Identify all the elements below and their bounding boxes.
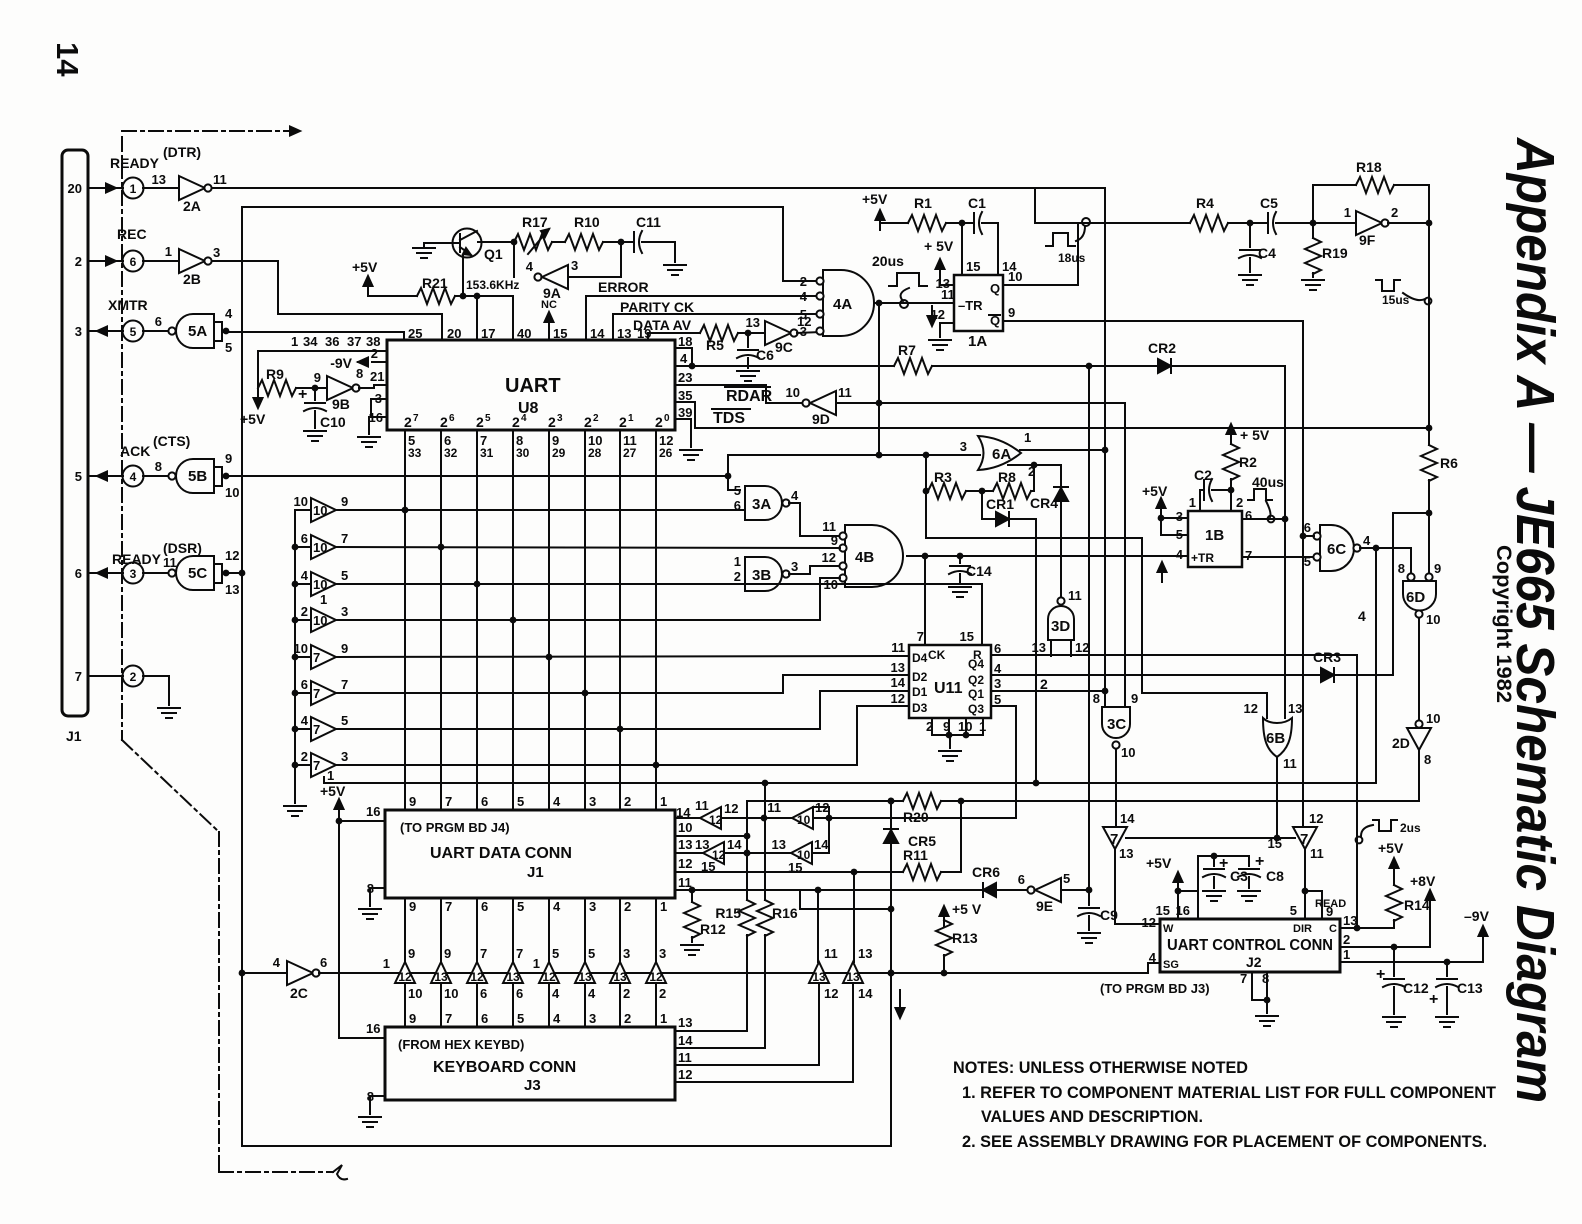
label TO PRGM BD J3 — [1100, 981, 1210, 996]
svg-text:+: + — [1429, 991, 1438, 1008]
svg-text:2: 2 — [440, 414, 448, 430]
wire data column 3 — [476, 430, 478, 810]
receiver 10b — [772, 837, 830, 875]
svg-text:2: 2 — [301, 749, 308, 764]
svg-text:16: 16 — [366, 1021, 380, 1036]
svg-text:4: 4 — [301, 568, 309, 583]
svg-text:(CTS): (CTS) — [153, 433, 190, 449]
wire 6B pin13 riser — [1282, 516, 1289, 718]
buffer 7a — [1103, 811, 1135, 861]
svg-text:+5V: +5V — [320, 783, 346, 799]
diode CR6 — [972, 864, 1000, 897]
wire R6 to 6D pin9 — [1428, 513, 1430, 574]
svg-text:R2: R2 — [1239, 454, 1257, 470]
gate 3A — [734, 483, 799, 520]
label REC — [117, 226, 147, 242]
svg-text:3: 3 — [130, 567, 137, 581]
svg-text:7: 7 — [313, 722, 320, 737]
wire row4 to 4B pin10 — [336, 578, 840, 623]
svg-text:13: 13 — [846, 970, 860, 984]
svg-text:9: 9 — [409, 1011, 416, 1026]
svg-text:C4: C4 — [1258, 245, 1276, 261]
svg-text:14: 14 — [814, 837, 829, 852]
J1conn pin16 — [366, 804, 380, 819]
svg-text:1: 1 — [1189, 495, 1196, 510]
inverter 9F — [1313, 205, 1398, 248]
svg-text:9A: 9A — [543, 285, 561, 301]
J1conn pin11 row — [675, 875, 983, 893]
title Appendix A - JE665 Schematic Diagram — [1505, 136, 1565, 1103]
svg-text:5: 5 — [552, 946, 559, 961]
svg-text:7: 7 — [445, 1011, 452, 1026]
connector UART DATA CONN J1 — [385, 810, 675, 898]
svg-text:15: 15 — [966, 259, 980, 274]
svg-text:13: 13 — [812, 970, 826, 984]
svg-text:14: 14 — [676, 805, 691, 820]
receiver 12a — [695, 798, 738, 829]
wire data column 7 — [619, 430, 621, 810]
wire U11 Q2 row — [991, 675, 1321, 692]
ground UART pin39 — [680, 450, 702, 460]
svg-text:32: 32 — [444, 446, 458, 460]
buffer 7 row8 — [295, 749, 348, 777]
wire 4A out riser — [878, 303, 880, 455]
svg-text:11: 11 — [824, 946, 838, 961]
UART pin20 stub — [447, 326, 461, 341]
svg-text:C6: C6 — [756, 347, 774, 363]
svg-text:1: 1 — [130, 182, 137, 196]
svg-text:5: 5 — [485, 413, 491, 424]
svg-text:4: 4 — [521, 413, 527, 424]
label PARITY CK — [620, 299, 694, 315]
svg-text:3: 3 — [341, 749, 348, 764]
svg-text:10: 10 — [313, 613, 327, 628]
svg-text:NOTES: UNLESS OTHERWISE NOTED: NOTES: UNLESS OTHERWISE NOTED — [953, 1058, 1248, 1077]
buffer 10 row4 — [295, 604, 348, 632]
svg-text:3: 3 — [75, 324, 82, 339]
capacitor C13 — [1429, 962, 1483, 1027]
wire 6C out — [1360, 545, 1411, 573]
svg-text:35: 35 — [678, 388, 692, 403]
label ACK (CTS) — [120, 433, 190, 459]
svg-text:CK: CK — [928, 648, 946, 662]
svg-text:J1: J1 — [527, 864, 544, 881]
svg-text:R20: R20 — [903, 809, 929, 825]
UART pin35 — [675, 388, 695, 428]
wire PARITY to 4A pin5 — [613, 313, 820, 315]
svg-text:4: 4 — [994, 661, 1002, 676]
svg-text:ACK: ACK — [120, 443, 150, 459]
svg-text:+5V: +5V — [1142, 483, 1168, 499]
wire data column 4 — [512, 430, 514, 810]
svg-text:Q3: Q3 — [968, 702, 984, 716]
svg-text:2: 2 — [1236, 495, 1243, 510]
svg-text:CR1: CR1 — [986, 496, 1014, 512]
buffer pin1 labels — [320, 592, 334, 783]
svg-text:2: 2 — [75, 254, 82, 269]
power +5V R1 — [862, 191, 908, 230]
diode CR3 — [1313, 649, 1393, 682]
svg-text:2: 2 — [584, 414, 592, 430]
svg-text:C13: C13 — [1457, 980, 1483, 996]
gate 6B — [1244, 701, 1303, 771]
svg-text:5: 5 — [1290, 903, 1297, 918]
wire row14 right — [813, 815, 1016, 822]
inverter 2D — [1392, 711, 1440, 767]
diode CR1 — [982, 491, 1036, 526]
wire TDS long — [695, 425, 1432, 432]
svg-text:R13: R13 — [952, 930, 978, 946]
resistor R8 — [993, 469, 1031, 499]
J2 pin12 label — [1142, 915, 1156, 930]
wire R21 to pins 17 40 — [455, 293, 513, 300]
resistor R5 — [700, 325, 738, 353]
svg-text:7: 7 — [313, 686, 320, 701]
svg-text:8: 8 — [1398, 561, 1405, 576]
buffer 13b — [843, 946, 873, 1001]
wire 2B out to UART pin20 — [212, 261, 442, 340]
node 3 circle — [123, 563, 144, 584]
svg-text:C1: C1 — [968, 195, 986, 211]
svg-text:11: 11 — [213, 172, 227, 187]
wire R3 riser — [923, 455, 930, 538]
nand 5B — [143, 451, 239, 500]
svg-text:2: 2 — [624, 1011, 631, 1026]
svg-text:8: 8 — [367, 1089, 374, 1104]
svg-text:J3: J3 — [524, 1077, 541, 1094]
J1conn pin13 row — [675, 837, 709, 853]
wire R11 to R20 — [941, 801, 961, 872]
wire 6D out to 2D — [1418, 618, 1420, 721]
wire 5C out — [222, 570, 245, 577]
gate 6A — [978, 436, 1021, 470]
svg-text:6D: 6D — [1406, 589, 1425, 606]
svg-text:13: 13 — [891, 660, 905, 675]
svg-text:7: 7 — [445, 899, 452, 914]
inverter 2A — [143, 172, 227, 214]
1A Qbar pin9 — [1003, 305, 1303, 321]
diode CR2 — [1148, 340, 1176, 373]
svg-text:R11: R11 — [903, 847, 928, 863]
capacitor C2 — [1194, 467, 1234, 511]
svg-text:11: 11 — [767, 800, 781, 815]
resistor R13 — [936, 901, 982, 973]
svg-text:R1: R1 — [914, 195, 932, 211]
svg-text:D4: D4 — [912, 651, 928, 665]
svg-text:13: 13 — [746, 315, 760, 330]
svg-text:5: 5 — [225, 340, 232, 355]
wire x1357 vertical — [1356, 655, 1358, 928]
svg-text:3: 3 — [1176, 509, 1183, 524]
node 2 circle — [123, 666, 144, 687]
svg-text:Q4: Q4 — [968, 657, 984, 671]
svg-text:7: 7 — [445, 794, 452, 809]
svg-text:READY: READY — [112, 551, 162, 567]
svg-text:C8: C8 — [1266, 868, 1284, 884]
svg-text:11: 11 — [838, 385, 852, 400]
svg-text:13: 13 — [434, 970, 448, 984]
one-shot 1A box — [954, 275, 1003, 350]
svg-text:9: 9 — [1326, 904, 1333, 919]
svg-text:10: 10 — [786, 385, 800, 400]
svg-text:8: 8 — [356, 366, 363, 381]
nand 6D — [1398, 561, 1441, 627]
svg-text:38: 38 — [366, 334, 380, 349]
svg-text:5: 5 — [1304, 554, 1311, 569]
wire R10 to C11 — [603, 239, 634, 246]
capacitor C11 — [634, 214, 675, 262]
wire CR2 branch vertical — [1088, 366, 1090, 890]
svg-text:13: 13 — [1288, 701, 1302, 716]
svg-text:12: 12 — [398, 970, 412, 984]
svg-text:9: 9 — [444, 946, 451, 961]
ground Q1 base — [413, 243, 435, 258]
svg-text:12: 12 — [678, 1067, 692, 1082]
J1conn pin14 row — [675, 805, 700, 820]
svg-text:C: C — [1329, 923, 1337, 935]
svg-text:9: 9 — [409, 899, 416, 914]
svg-text:7: 7 — [1110, 831, 1118, 848]
svg-text:15: 15 — [553, 326, 567, 341]
svg-text:14: 14 — [678, 1033, 693, 1048]
wire R9 to 9B — [296, 385, 327, 392]
svg-text:4: 4 — [1176, 547, 1184, 562]
svg-text:4: 4 — [588, 986, 596, 1001]
resistor R17 pot — [514, 214, 552, 254]
svg-text:J1: J1 — [66, 728, 82, 744]
svg-text:R7: R7 — [898, 342, 916, 358]
J2 pins15 16 — [1156, 891, 1198, 919]
svg-text:2: 2 — [593, 413, 599, 424]
wire 13a to J3 pin11 — [675, 983, 819, 1065]
svg-text:(TO PRGM BD J3): (TO PRGM BD J3) — [1100, 981, 1210, 996]
UART pin40 stub — [513, 296, 531, 341]
svg-text:16: 16 — [366, 804, 380, 819]
svg-text:5: 5 — [75, 469, 82, 484]
wire net y801 — [747, 798, 1419, 805]
svg-text:7: 7 — [413, 413, 419, 424]
J3 top pin labels — [409, 1011, 667, 1026]
svg-text:3: 3 — [589, 1011, 596, 1026]
svg-text:3: 3 — [623, 946, 630, 961]
wire J1 pin3 to node 5 — [88, 327, 123, 336]
resistor R4 — [1190, 195, 1228, 231]
svg-text:9: 9 — [314, 370, 321, 385]
svg-text:10: 10 — [313, 503, 327, 518]
svg-text:R12: R12 — [700, 921, 726, 937]
UART pin19 stub — [637, 326, 651, 341]
svg-text:10: 10 — [444, 986, 458, 1001]
svg-text:1A: 1A — [968, 333, 987, 350]
svg-text:Q: Q — [990, 281, 1000, 296]
wire 9F out — [1388, 220, 1432, 227]
svg-text:15: 15 — [1156, 903, 1170, 918]
capacitor C8 — [1238, 853, 1284, 901]
svg-text:UART: UART — [505, 375, 561, 397]
svg-text:3: 3 — [659, 946, 666, 961]
svg-text:18us: 18us — [1058, 251, 1086, 265]
capacitor C5 — [1260, 195, 1316, 234]
label XMTR — [108, 297, 148, 313]
power +5V R21 — [352, 259, 417, 296]
svg-text:4: 4 — [1358, 608, 1366, 624]
svg-text:+5V: +5V — [1146, 855, 1172, 871]
inverter 2C — [239, 955, 328, 1001]
svg-text:-9V: -9V — [330, 355, 352, 371]
pulse 40us — [1248, 474, 1284, 522]
wire 12a to 10a — [721, 815, 792, 822]
svg-text:26: 26 — [659, 446, 673, 460]
transistor Q1 — [424, 229, 503, 263]
wire U11 Q1 to 3C — [991, 688, 1108, 707]
wire J1conn pin9 jog — [800, 890, 891, 909]
svg-text:3C: 3C — [1107, 716, 1126, 733]
svg-text:6: 6 — [75, 566, 82, 581]
UART pin13 stub — [613, 314, 631, 341]
label net 4 — [1358, 608, 1366, 624]
wire R15 to J3 pin13 — [675, 1015, 747, 1031]
wire data column 8 — [655, 430, 657, 810]
svg-text:1. REFER TO COMPONENT MATERIAL: 1. REFER TO COMPONENT MATERIAL LIST FOR … — [962, 1083, 1497, 1102]
J1 pin 7 — [75, 669, 82, 684]
J1conn top pin labels — [409, 794, 667, 809]
svg-text:11: 11 — [1310, 846, 1324, 861]
resistor R15 — [715, 801, 755, 1031]
J1conn pin8 — [367, 881, 385, 906]
wire 3B out to 4B — [789, 566, 840, 574]
wire 3C out — [1115, 749, 1117, 827]
svg-text:4: 4 — [130, 470, 137, 484]
register U11 box — [909, 645, 991, 718]
svg-text:C11: C11 — [636, 214, 661, 230]
svg-text:9: 9 — [1131, 691, 1138, 706]
svg-text:4: 4 — [791, 488, 799, 503]
wire R16 to J3 pin14 — [675, 1033, 765, 1048]
svg-text:2: 2 — [404, 414, 412, 430]
wire 7a to J2 W — [1115, 849, 1160, 924]
svg-text:–9V: –9V — [1464, 908, 1490, 924]
wire R5 to 9C — [738, 330, 765, 337]
1B pin3 pin5 stubs — [1161, 518, 1188, 535]
wire J1 pin5 to node 4 — [88, 472, 123, 481]
inverter 9D — [786, 385, 852, 427]
svg-text:CR6: CR6 — [972, 864, 1000, 880]
svg-text:27: 27 — [623, 446, 637, 460]
svg-text:Q1: Q1 — [484, 246, 503, 262]
svg-text:13: 13 — [1032, 640, 1046, 655]
wire strobe line — [319, 963, 1160, 976]
svg-text:2: 2 — [476, 414, 484, 430]
svg-text:11: 11 — [163, 555, 177, 570]
wire net y783 — [324, 777, 1376, 786]
1A Q pin10 — [1003, 223, 1078, 285]
notes text — [953, 1058, 1497, 1151]
svg-text:7: 7 — [341, 531, 348, 546]
svg-text:TDS: TDS — [713, 410, 745, 427]
svg-text:5: 5 — [517, 1011, 524, 1026]
svg-text:12: 12 — [542, 970, 556, 984]
pulse 15us — [1376, 280, 1431, 307]
wire row8 to U11 D3 — [336, 706, 909, 768]
svg-text:13: 13 — [678, 1015, 692, 1030]
svg-text:9: 9 — [409, 794, 416, 809]
svg-text:6: 6 — [516, 986, 523, 1001]
svg-text:31: 31 — [480, 446, 494, 460]
resistor R3 — [928, 469, 966, 499]
svg-text:3: 3 — [557, 413, 563, 424]
svg-text:6B: 6B — [1266, 730, 1285, 747]
svg-text:CR4: CR4 — [1030, 495, 1058, 511]
wire buffer rail — [292, 510, 299, 803]
svg-text:7: 7 — [1300, 831, 1308, 848]
svg-text:13: 13 — [578, 970, 592, 984]
resistor R7 — [692, 342, 932, 374]
svg-text:7: 7 — [516, 946, 523, 961]
svg-text:5: 5 — [517, 794, 524, 809]
svg-text:2us: 2us — [1400, 821, 1421, 835]
svg-text:SG: SG — [1163, 959, 1179, 971]
svg-text:4: 4 — [301, 713, 309, 728]
wire 2A out — [212, 187, 1105, 189]
svg-text:CR3: CR3 — [1313, 649, 1341, 665]
svg-text:2: 2 — [800, 274, 807, 289]
svg-text:40: 40 — [517, 326, 531, 341]
svg-text:6: 6 — [481, 1011, 488, 1026]
svg-text:12: 12 — [678, 856, 692, 871]
wire 13b riser — [853, 872, 855, 962]
wire Q1 collector — [478, 239, 517, 246]
svg-text:12: 12 — [824, 986, 838, 1001]
wire bottom loop — [242, 1145, 891, 1147]
wire J1 pin2 to node 6 — [88, 257, 123, 266]
capacitor C6 — [737, 333, 774, 381]
wire +5V to J1 J3 pin16 — [336, 818, 385, 1038]
wire 1A Qbar vertical — [1302, 321, 1304, 827]
svg-text:2: 2 — [1343, 932, 1350, 947]
page number 14 — [50, 42, 85, 77]
UART output labels 2^n — [404, 413, 670, 430]
svg-text:6C: 6C — [1327, 541, 1346, 558]
svg-text:R10: R10 — [574, 214, 600, 230]
UART pin17 stub — [477, 296, 495, 341]
svg-text:1: 1 — [660, 794, 667, 809]
svg-text:17: 17 — [481, 326, 495, 341]
power +5V 1B — [1142, 483, 1168, 535]
svg-text:3D: 3D — [1051, 618, 1070, 635]
svg-text:2: 2 — [1391, 205, 1398, 220]
buffer 7 row6 — [295, 677, 348, 705]
resistor R11 — [903, 847, 941, 880]
svg-text:40us: 40us — [1252, 474, 1284, 490]
label 153.6KHz — [466, 278, 519, 292]
svg-text:4: 4 — [553, 794, 561, 809]
svg-text:2C: 2C — [290, 985, 308, 1001]
svg-text:3: 3 — [589, 899, 596, 914]
ground J3 pin8 — [359, 1117, 381, 1127]
nand 5C — [143, 548, 239, 597]
svg-text:13: 13 — [152, 172, 166, 187]
wire 9C to 4A pin3 — [797, 332, 820, 333]
svg-text:11: 11 — [891, 640, 905, 655]
buffer 7b — [1268, 811, 1324, 861]
wire 6C pin6 — [1300, 533, 1314, 540]
svg-text:5C: 5C — [188, 565, 207, 582]
inverter 9C — [746, 314, 812, 355]
resistor R16 — [757, 818, 798, 1048]
svg-text:CR2: CR2 — [1148, 340, 1176, 356]
svg-text:1: 1 — [533, 956, 540, 971]
svg-text:R21: R21 — [422, 275, 448, 291]
